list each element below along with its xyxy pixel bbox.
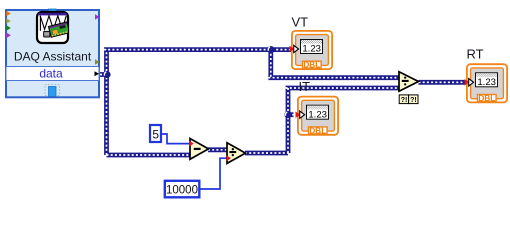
svg-text:DBL: DBL <box>478 94 495 103</box>
svg-text:?!: ?! <box>410 97 417 104</box>
svg-text:DBL: DBL <box>309 126 326 135</box>
svg-text:data: data <box>39 67 63 81</box>
svg-text:1.23: 1.23 <box>302 44 321 55</box>
svg-text:?!: ?! <box>401 97 408 104</box>
svg-text:IT: IT <box>299 79 311 94</box>
svg-text:10000: 10000 <box>166 184 198 196</box>
svg-text:5: 5 <box>152 128 159 142</box>
svg-text:RT: RT <box>467 47 484 62</box>
svg-text:1.23: 1.23 <box>477 77 496 88</box>
svg-text:DBL: DBL <box>303 61 320 70</box>
svg-text:1.23: 1.23 <box>308 109 327 120</box>
svg-text:DAQ Assistant: DAQ Assistant <box>14 50 92 64</box>
svg-text:VT: VT <box>292 15 309 30</box>
